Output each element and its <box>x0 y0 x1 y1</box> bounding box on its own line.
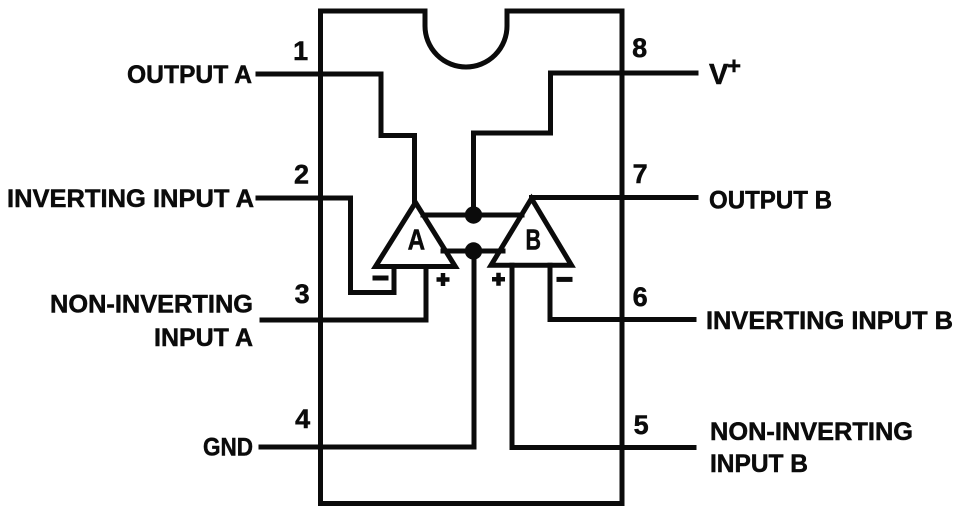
op-amp B body <box>491 199 572 266</box>
svg-text:INPUT B: INPUT B <box>710 450 808 478</box>
wire pin4 GND to ground node <box>261 251 474 447</box>
op-amp B minus sign <box>557 277 573 282</box>
wire pin3 to op-amp A non-inverting input <box>262 267 426 321</box>
svg-text:7: 7 <box>633 159 648 189</box>
svg-text:GND: GND <box>203 433 253 461</box>
wire V+ supply rail between op-amps <box>423 213 522 218</box>
wire op-amp B inverting input to pin6 <box>550 265 694 319</box>
svg-text:NON-INVERTING: NON-INVERTING <box>710 418 913 446</box>
svg-text:INVERTING INPUT A: INVERTING INPUT A <box>7 185 254 213</box>
svg-text:8: 8 <box>632 33 647 63</box>
svg-text:4: 4 <box>295 404 310 434</box>
svg-text:INVERTING INPUT B: INVERTING INPUT B <box>706 307 953 335</box>
wire pin8 V+ to supply node <box>474 73 697 215</box>
svg-text:OUTPUT A: OUTPUT A <box>127 61 252 89</box>
wire pin2 to op-amp A inverting input <box>258 198 394 293</box>
svg-text:+: + <box>727 53 741 80</box>
junction node ground <box>465 242 482 259</box>
svg-text:2: 2 <box>294 160 309 190</box>
wire op-amp B non-inverting input to pin5 <box>512 265 694 447</box>
svg-text:NON-INVERTING: NON-INVERTING <box>50 291 253 319</box>
svg-text:1: 1 <box>293 36 308 66</box>
svg-text:5: 5 <box>634 410 649 440</box>
svg-text:OUTPUT B: OUTPUT B <box>709 187 832 215</box>
svg-text:B: B <box>526 225 542 257</box>
op-amp A plus sign <box>437 273 450 286</box>
wire pin1 to op-amp A output <box>258 74 415 203</box>
svg-text:INPUT A: INPUT A <box>154 324 253 352</box>
svg-text:V: V <box>709 59 729 91</box>
svg-text:3: 3 <box>295 279 310 309</box>
junction node V+ supply <box>465 206 482 223</box>
pin-1 index notch <box>425 11 507 67</box>
op-amp B plus sign <box>492 273 505 286</box>
wire ground rail between op-amps <box>443 249 503 254</box>
op-amp A body <box>376 203 456 267</box>
svg-text:6: 6 <box>633 282 648 312</box>
op-amp A minus sign <box>373 276 389 281</box>
svg-text:A: A <box>408 225 426 257</box>
wire op-amp B output to pin7 <box>532 195 697 200</box>
IC package body U1 (DIP-8 outline) <box>321 11 623 504</box>
